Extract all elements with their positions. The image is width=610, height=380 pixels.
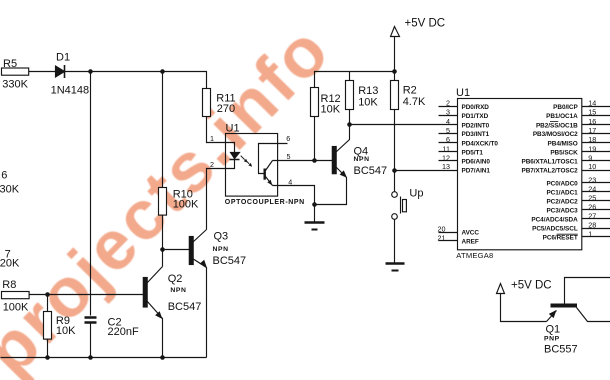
junction Q2 emitter rail bbox=[160, 355, 165, 360]
svg-text:270: 270 bbox=[217, 103, 235, 115]
svg-text:18: 18 bbox=[588, 135, 596, 144]
svg-text:17: 17 bbox=[588, 126, 596, 135]
svg-text:220nF: 220nF bbox=[108, 326, 139, 338]
svg-text:NPN: NPN bbox=[213, 246, 229, 253]
diode D1 bbox=[56, 65, 91, 78]
svg-text:100K: 100K bbox=[3, 302, 29, 314]
svg-text:21: 21 bbox=[438, 233, 446, 242]
power +5V bottom right bbox=[497, 284, 547, 322]
svg-text:19: 19 bbox=[588, 144, 596, 153]
svg-text:PD4/XCK/T0: PD4/XCK/T0 bbox=[462, 140, 499, 147]
svg-text:10: 10 bbox=[588, 162, 596, 171]
resistor R11 bbox=[203, 89, 226, 143]
svg-text:5: 5 bbox=[446, 126, 450, 135]
resistor R13 bbox=[346, 72, 354, 125]
svg-text:BC557: BC557 bbox=[544, 343, 578, 355]
svg-text:1: 1 bbox=[588, 229, 592, 238]
wire bottom rail bbox=[1, 357, 207, 359]
transistor Q2 bbox=[143, 267, 162, 358]
svg-text:5: 5 bbox=[287, 152, 291, 161]
svg-text:PB1/OC1A: PB1/OC1A bbox=[546, 113, 578, 120]
svg-text:30K: 30K bbox=[0, 184, 20, 196]
overline RESET bbox=[557, 233, 578, 235]
svg-text:PD7/AIN1: PD7/AIN1 bbox=[462, 167, 491, 174]
junction R8 R9 bbox=[45, 292, 50, 297]
svg-text:2: 2 bbox=[210, 160, 214, 169]
capacitor C2 bbox=[85, 318, 97, 358]
junction Q4 base R12 opto pin5 bbox=[312, 158, 317, 163]
svg-text:OPTOCOUPLER-NPN: OPTOCOUPLER-NPN bbox=[225, 199, 305, 206]
IC pin numbers and names bbox=[438, 99, 597, 246]
wire opto pin4 to ground bbox=[273, 186, 315, 205]
junction R9 bottom rail bbox=[45, 355, 50, 360]
svg-text:26: 26 bbox=[588, 202, 596, 211]
svg-text:9: 9 bbox=[588, 153, 592, 162]
switch S1 Up bbox=[392, 171, 407, 263]
optocoupler U1 box bbox=[226, 134, 278, 197]
junction R13 Q4 collector pin4 bbox=[347, 122, 352, 127]
svg-text:+5V DC: +5V DC bbox=[405, 18, 446, 30]
svg-text:BC547: BC547 bbox=[354, 165, 388, 177]
svg-text:4.7K: 4.7K bbox=[403, 96, 426, 108]
svg-text:PB4/MISO: PB4/MISO bbox=[548, 140, 578, 147]
transistor Q4 bbox=[315, 125, 350, 205]
svg-text:14: 14 bbox=[588, 99, 596, 108]
ground under switch bbox=[386, 264, 405, 271]
junction Q4 emitter ground bbox=[312, 202, 317, 207]
svg-text:BC547: BC547 bbox=[168, 301, 202, 313]
opto light arrows bbox=[241, 156, 252, 167]
overline SS bbox=[550, 121, 558, 123]
svg-text:PB3/MOSI/OC2: PB3/MOSI/OC2 bbox=[533, 131, 578, 138]
svg-text:R8: R8 bbox=[2, 279, 16, 291]
svg-text:20K: 20K bbox=[0, 258, 20, 270]
junction Q3 base R10 bbox=[160, 247, 165, 252]
transistor Q3 bbox=[189, 230, 207, 358]
wire Q3 base bbox=[163, 249, 190, 251]
opto phototransistor bbox=[259, 144, 288, 186]
svg-text:PC0/ADC0: PC0/ADC0 bbox=[546, 181, 578, 188]
wire rail to R10 bbox=[162, 72, 164, 188]
junction C2 bottom rail bbox=[88, 355, 93, 360]
svg-text:20: 20 bbox=[438, 225, 446, 234]
wire opto pin2 to Q3 collector bbox=[207, 169, 226, 230]
svg-text:PC2/ADC2: PC2/ADC2 bbox=[546, 199, 578, 206]
ground under opto bbox=[305, 205, 325, 230]
resistor R5 bbox=[2, 68, 56, 75]
svg-text:AREF: AREF bbox=[462, 239, 479, 246]
svg-text:PC4/ADC4/SDA: PC4/ADC4/SDA bbox=[531, 217, 578, 224]
svg-text:11: 11 bbox=[443, 144, 450, 153]
svg-text:23: 23 bbox=[588, 175, 596, 184]
wire top rail bbox=[91, 72, 207, 89]
svg-text:PD0/RXD: PD0/RXD bbox=[462, 104, 490, 111]
svg-text:ATMEGA8: ATMEGA8 bbox=[456, 251, 493, 260]
svg-text:27: 27 bbox=[588, 211, 596, 220]
resistor R12 bbox=[311, 88, 319, 161]
svg-text:Q3: Q3 bbox=[214, 231, 229, 243]
svg-text:4: 4 bbox=[446, 117, 450, 126]
svg-text:AVCC: AVCC bbox=[462, 230, 480, 237]
svg-text:PD2/INT0: PD2/INT0 bbox=[462, 122, 490, 129]
svg-text:3: 3 bbox=[446, 108, 450, 117]
svg-text:100K: 100K bbox=[173, 198, 199, 210]
svg-text:U1: U1 bbox=[456, 87, 470, 99]
svg-text:PC6/RESET: PC6/RESET bbox=[543, 235, 578, 242]
svg-text:PB6/XTAL1/TOSC1: PB6/XTAL1/TOSC1 bbox=[521, 159, 578, 166]
svg-text:10K: 10K bbox=[56, 325, 76, 337]
svg-text:Q1: Q1 bbox=[546, 324, 561, 336]
transistor Q1 PNP bbox=[547, 278, 610, 322]
wire pin4 line bbox=[350, 124, 458, 126]
svg-text:6: 6 bbox=[1, 169, 7, 181]
svg-text:Q2: Q2 bbox=[168, 273, 183, 285]
svg-text:+5V DC: +5V DC bbox=[511, 280, 552, 292]
svg-text:1N4148: 1N4148 bbox=[51, 84, 90, 96]
opto LED bbox=[226, 143, 240, 169]
svg-text:Up: Up bbox=[409, 188, 423, 200]
svg-text:D1: D1 bbox=[56, 52, 70, 64]
svg-text:NPN: NPN bbox=[354, 156, 370, 163]
svg-text:R13: R13 bbox=[358, 85, 378, 97]
svg-text:25: 25 bbox=[588, 193, 596, 202]
svg-text:13: 13 bbox=[442, 162, 450, 171]
resistor R2 bbox=[391, 72, 399, 171]
IC right pin stubs bbox=[582, 107, 610, 237]
resistor R9 bbox=[44, 295, 52, 358]
svg-text:6: 6 bbox=[446, 135, 450, 144]
power +5V top bbox=[391, 27, 400, 72]
svg-text:28: 28 bbox=[588, 220, 596, 229]
wire D1 node vertical to C2 bbox=[90, 72, 92, 316]
svg-text:330K: 330K bbox=[2, 78, 28, 90]
svg-text:U1: U1 bbox=[226, 122, 240, 134]
junction R2 switch pin13 bbox=[392, 168, 397, 173]
junction R10 top rail bbox=[160, 69, 165, 74]
junction +5V rail R2 bbox=[392, 69, 397, 74]
IC U1 ATMEGA8 box bbox=[458, 99, 582, 250]
svg-text:PC1/ADC1: PC1/ADC1 bbox=[546, 190, 578, 197]
svg-text:PD3/INT1: PD3/INT1 bbox=[462, 131, 490, 138]
wire +5V rail bbox=[315, 72, 395, 88]
svg-text:R2: R2 bbox=[403, 84, 417, 96]
svg-text:PD1/TXD: PD1/TXD bbox=[462, 113, 489, 120]
svg-text:10K: 10K bbox=[358, 97, 378, 109]
svg-text:10K: 10K bbox=[321, 104, 341, 116]
watermark projects.info bbox=[0, 10, 345, 380]
svg-text:4: 4 bbox=[288, 178, 292, 187]
svg-text:6: 6 bbox=[286, 134, 290, 143]
svg-text:16: 16 bbox=[588, 117, 596, 126]
svg-text:PB2/SS/OC1B: PB2/SS/OC1B bbox=[536, 122, 578, 129]
svg-text:BC547: BC547 bbox=[213, 255, 247, 267]
wire opto pin5 to Q4 base bbox=[273, 160, 333, 162]
svg-text:NPN: NPN bbox=[170, 287, 186, 294]
junction D1-C2 node bbox=[88, 69, 93, 74]
svg-text:PB0/ICP: PB0/ICP bbox=[553, 104, 578, 111]
svg-text:1: 1 bbox=[210, 134, 214, 143]
wire pin13 line bbox=[395, 170, 458, 172]
svg-text:PB7/XTAL2/TOSC2: PB7/XTAL2/TOSC2 bbox=[521, 167, 578, 174]
svg-text:PNP: PNP bbox=[544, 336, 560, 343]
svg-text:PC3/ADC3: PC3/ADC3 bbox=[546, 208, 578, 215]
resistor R10 bbox=[159, 188, 167, 267]
svg-text:PC5/ADC5/SCL: PC5/ADC5/SCL bbox=[532, 226, 578, 233]
svg-text:R5: R5 bbox=[3, 58, 17, 70]
IC left pin stubs bbox=[439, 107, 458, 241]
svg-text:2: 2 bbox=[446, 99, 450, 108]
svg-text:PB5/SCK: PB5/SCK bbox=[550, 150, 578, 157]
svg-text:PD5/T1: PD5/T1 bbox=[462, 150, 484, 157]
svg-text:12: 12 bbox=[442, 153, 450, 162]
svg-text:PD6/AIN0: PD6/AIN0 bbox=[462, 159, 491, 166]
svg-text:24: 24 bbox=[588, 184, 596, 193]
resistor R8 bbox=[2, 292, 144, 299]
svg-text:15: 15 bbox=[588, 108, 596, 117]
